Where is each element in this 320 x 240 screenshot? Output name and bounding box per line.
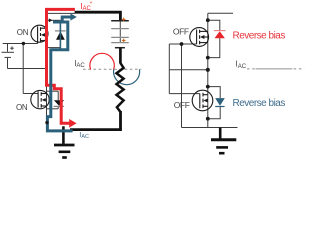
wire: bottom return bus [70, 128, 122, 131]
node: gate junction dot [22, 42, 25, 45]
wire: blue arrow arm top [62, 17, 71, 22]
diode D1 (top left) [55, 31, 66, 40]
node dot on gate line [180, 42, 184, 46]
cap bottom plate [115, 47, 125, 49]
wire: gate line top right [169, 43, 196, 45]
node: bottom rail junction dot [45, 121, 48, 124]
battery V1 (gate supply) [2, 44, 15, 69]
wire: top bus horizontal [75, 11, 122, 14]
diode D2 (bottom left) [54, 100, 65, 106]
wire: caps down to inductor (thick) [119, 48, 122, 63]
dashed line (left) [83, 68, 141, 70]
svg-text:ON: ON [16, 103, 28, 112]
svg-text:OFF: OFF [173, 27, 189, 37]
wire: diode D3 branch top [208, 20, 220, 31]
blue arrowhead (top out) [70, 13, 76, 20]
capacitor C1 [111, 20, 129, 22]
wire: gate line bottom right [169, 93, 200, 95]
wire between caps [119, 29, 121, 37]
wire: red path top + left rail [47, 9, 75, 85]
wire: blue detour around diode [51, 22, 68, 50]
wire: top bus down to caps [119, 11, 122, 20]
node dots on right rail [206, 18, 210, 22]
wire: left rail vertical [46, 10, 48, 130]
wire: left vertical A [168, 44, 170, 94]
battery plus sign [10, 47, 14, 49]
wire: diode D1 top lead [59, 20, 61, 31]
wire: diode D1 bottom lead [59, 40, 61, 48]
wire: diode D1 top connection [47, 19, 61, 21]
svg-text:Reverse bias: Reverse bias [233, 31, 286, 42]
ground (right) [211, 128, 236, 154]
wire: gate-drive return line [8, 68, 47, 70]
mosfet Q2 body arrow [42, 98, 46, 102]
wire: red path jogs + down + out [45, 85, 71, 123]
inductor L1 (load) zigzag [117, 63, 124, 112]
svg-text:*: * [90, 1, 93, 8]
wire: diode D1 bottom connection [47, 47, 61, 49]
wire: diode D2 top lead [57, 91, 59, 100]
dashed line (right) [247, 68, 304, 70]
red sine arc (positive half) [90, 53, 114, 69]
wire: right rail vertical [207, 13, 209, 127]
ground (left) [54, 126, 75, 157]
wire: diode D4 branch top [208, 87, 220, 99]
wire: diode D2 bottom lead [57, 106, 59, 108]
wire: midpoint tie [169, 69, 208, 71]
wire: diode D3 branch bottom [208, 38, 220, 57]
wire: diode D2 top connection [47, 90, 59, 92]
wire: right top stub [208, 12, 233, 14]
wire: diode D2 bottom connection [47, 108, 59, 110]
small black arrow on D1 top connection [49, 18, 53, 22]
wire: drain stub to cap bus [47, 12, 76, 14]
svg-text:OFF: OFF [174, 100, 190, 110]
mosfet Q4 body arrow [203, 99, 207, 103]
wire: gate line top mosfet [3, 43, 38, 45]
wire: diode D4 branch bottom [208, 106, 220, 118]
capacitor C2 [111, 36, 129, 38]
wire: gate tie vertical [22, 44, 24, 94]
wire: vertical B gate tie [181, 44, 183, 128]
red arrowhead (bottom out) [69, 119, 76, 128]
mosfet Q3 body arrow [200, 35, 204, 39]
thin teal line through diode D1 [59, 22, 61, 50]
diode D4 (teal, reverse biased) [215, 98, 225, 106]
wire: bottom tie horizontal [182, 127, 238, 129]
svg-text:Reverse bias: Reverse bias [233, 98, 286, 109]
mosfet Q1 body arrow [41, 33, 45, 37]
wire: gate line bottom mosfet [23, 93, 38, 95]
blue sine arc (negative half) [114, 69, 140, 84]
svg-text:ON: ON [17, 28, 29, 37]
plus C1 [122, 18, 126, 22]
wire: inductor bottom lead [119, 111, 122, 130]
wire: blue vertical down + bottom [47, 48, 72, 130]
diode D3 (red, reverse biased) [214, 31, 225, 39]
plus C2 [122, 39, 126, 43]
